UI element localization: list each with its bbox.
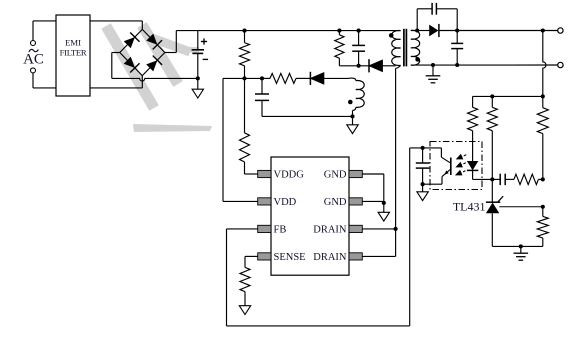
svg-text:DRAIN: DRAIN: [313, 252, 347, 263]
pin GND (right): [324, 197, 363, 208]
svg-text:AC: AC: [23, 52, 44, 68]
svg-text:VDD: VDD: [274, 197, 297, 208]
svg-text:GND: GND: [324, 170, 347, 181]
node clamp bottom: [357, 64, 361, 68]
node output cap top: [455, 28, 459, 32]
resistor R6 (to TL431 cathode): [487, 96, 497, 179]
capacitor C5 output: [451, 31, 463, 66]
node TL431 cathode / comp: [490, 177, 494, 181]
wire FB pin loop to optocoupler: [227, 148, 410, 326]
wire bridge - output to ground node (hops over AC wire): [112, 53, 198, 82]
wire bridge + output to top rail: [165, 31, 177, 53]
node clamp R top: [337, 29, 341, 33]
node fb2: [541, 94, 545, 98]
wire Vout+ down to divider (hops over - rail): [543, 31, 546, 97]
resistor R5 (opto LED bias): [468, 96, 478, 161]
wire D3 to drain: [383, 65, 396, 67]
diode D2 (aux rectifier, cathode left): [310, 73, 324, 85]
resistor R8 comp: [514, 174, 539, 184]
opto LED (pointing down): [467, 161, 492, 179]
svg-text:GND: GND: [324, 197, 347, 208]
node secondary top: [415, 28, 419, 32]
svg-text:EMI: EMI: [65, 38, 81, 48]
resistor R10 sense: [240, 267, 250, 305]
wire SENSE pin: [245, 256, 258, 267]
pin FB: [258, 225, 287, 236]
resistor R3 (aux series): [262, 73, 310, 83]
wire node A to VDD pin: [223, 78, 258, 201]
output terminal -: [558, 62, 563, 67]
EMI filter block: [56, 15, 90, 96]
transformer T1 primary winding: [389, 31, 401, 69]
node secondary ground: [431, 63, 435, 67]
node fb1: [490, 94, 494, 98]
wire EMI bottom to bridge bottom: [90, 76, 142, 88]
wire DRAIN pin 2: [362, 255, 395, 257]
wire C2 bottom to aux ground: [262, 115, 353, 117]
bridge rectifier BR1: [120, 29, 165, 75]
resistor R1 startup: [240, 31, 250, 79]
pin GND (right): [324, 170, 363, 181]
ground (IC GND): [378, 212, 389, 221]
pin DRAIN (right): [313, 252, 362, 263]
node FB cap top: [421, 146, 425, 150]
aux winding L1: [348, 78, 364, 116]
capacitor C2 (VDD): [255, 78, 269, 116]
svg-text:FILTER: FILTER: [60, 48, 87, 58]
optocoupler U2 box: [430, 142, 482, 190]
node FB cap bottom: [421, 182, 425, 186]
resistor R2 to VDDG: [240, 78, 258, 174]
TL431 anode bottom wire: [492, 245, 543, 247]
earth ground (TL431): [514, 246, 529, 260]
node GND join: [382, 201, 386, 205]
resistor R9 (divider lower): [537, 207, 548, 247]
svg-text:FB: FB: [274, 225, 287, 236]
ground (aux winding): [347, 116, 358, 133]
drain line (primary bottom to DRAIN pins): [395, 68, 397, 256]
TL431 ref wire: [499, 206, 543, 208]
AC source: [23, 21, 56, 88]
node ref/divider mid: [541, 205, 545, 209]
svg-text:VDDG: VDDG: [274, 170, 305, 181]
wire D4 to output + rail: [439, 30, 558, 32]
secondary bottom rail: [415, 64, 558, 66]
node aux ground: [350, 114, 354, 118]
wire GND pins to ground: [362, 174, 384, 212]
op-amp U1 controller IC: [271, 157, 349, 275]
output terminal +: [558, 28, 563, 33]
svg-text:TL431: TL431: [453, 200, 486, 214]
clamp bottom wire: [339, 65, 369, 67]
capacitor C3 clamp: [352, 31, 365, 66]
node comp right: [541, 177, 545, 181]
ground (primary dc bus): [192, 78, 203, 98]
svg-text:SENSE: SENSE: [274, 252, 306, 263]
opto phototransistor: [441, 148, 450, 184]
transformer T1 secondary winding: [411, 30, 420, 65]
transformer core: [404, 29, 407, 67]
wire EMI to bridge top: [90, 21, 142, 30]
wire node A to node B: [245, 77, 263, 79]
node drain: [394, 227, 398, 231]
svg-text:DRAIN: DRAIN: [313, 225, 347, 236]
node B (aux rectifier node): [260, 76, 264, 80]
node: primary ground: [196, 76, 200, 80]
pin DRAIN (right): [313, 225, 362, 236]
capacitor C6 (FB filter): [416, 148, 430, 184]
wire opto collector to FB node: [410, 147, 442, 149]
opto light arrows: [456, 155, 466, 175]
capacitor C7 comp: [492, 174, 514, 185]
resistor R4 clamp: [335, 31, 344, 66]
pin SENSE: [258, 252, 306, 263]
ground (sense resistor): [239, 306, 250, 315]
capacitor C4 snubber over D4: [417, 3, 457, 31]
ground (opto emitter): [417, 184, 428, 200]
wire opto emitter to ground: [423, 183, 442, 185]
node bottom ground: [519, 244, 523, 248]
pin VDDG: [258, 170, 305, 181]
top HV rail: [176, 30, 400, 32]
diode D3 clamp (cathode left): [369, 60, 383, 72]
node A (VDD bias node): [242, 76, 246, 80]
wire DRAIN pin 1: [362, 228, 395, 230]
node Vout sense tap: [541, 28, 545, 32]
diode D4 output rectifier: [417, 24, 439, 37]
TL431 U3 shunt regulator: [486, 179, 503, 246]
earth ground (secondary): [426, 65, 441, 83]
wire comp to divider: [538, 178, 542, 180]
resistor R7 (divider upper): [537, 96, 548, 179]
node output cap bottom: [455, 63, 459, 67]
node clamp C top: [357, 29, 361, 33]
node on rail at startup resistor: [242, 29, 246, 33]
bulk capacitor C1: [192, 31, 209, 79]
pin VDD: [258, 197, 297, 208]
feedback top node wire: [473, 95, 543, 97]
wire D2 to aux winding: [324, 77, 348, 79]
